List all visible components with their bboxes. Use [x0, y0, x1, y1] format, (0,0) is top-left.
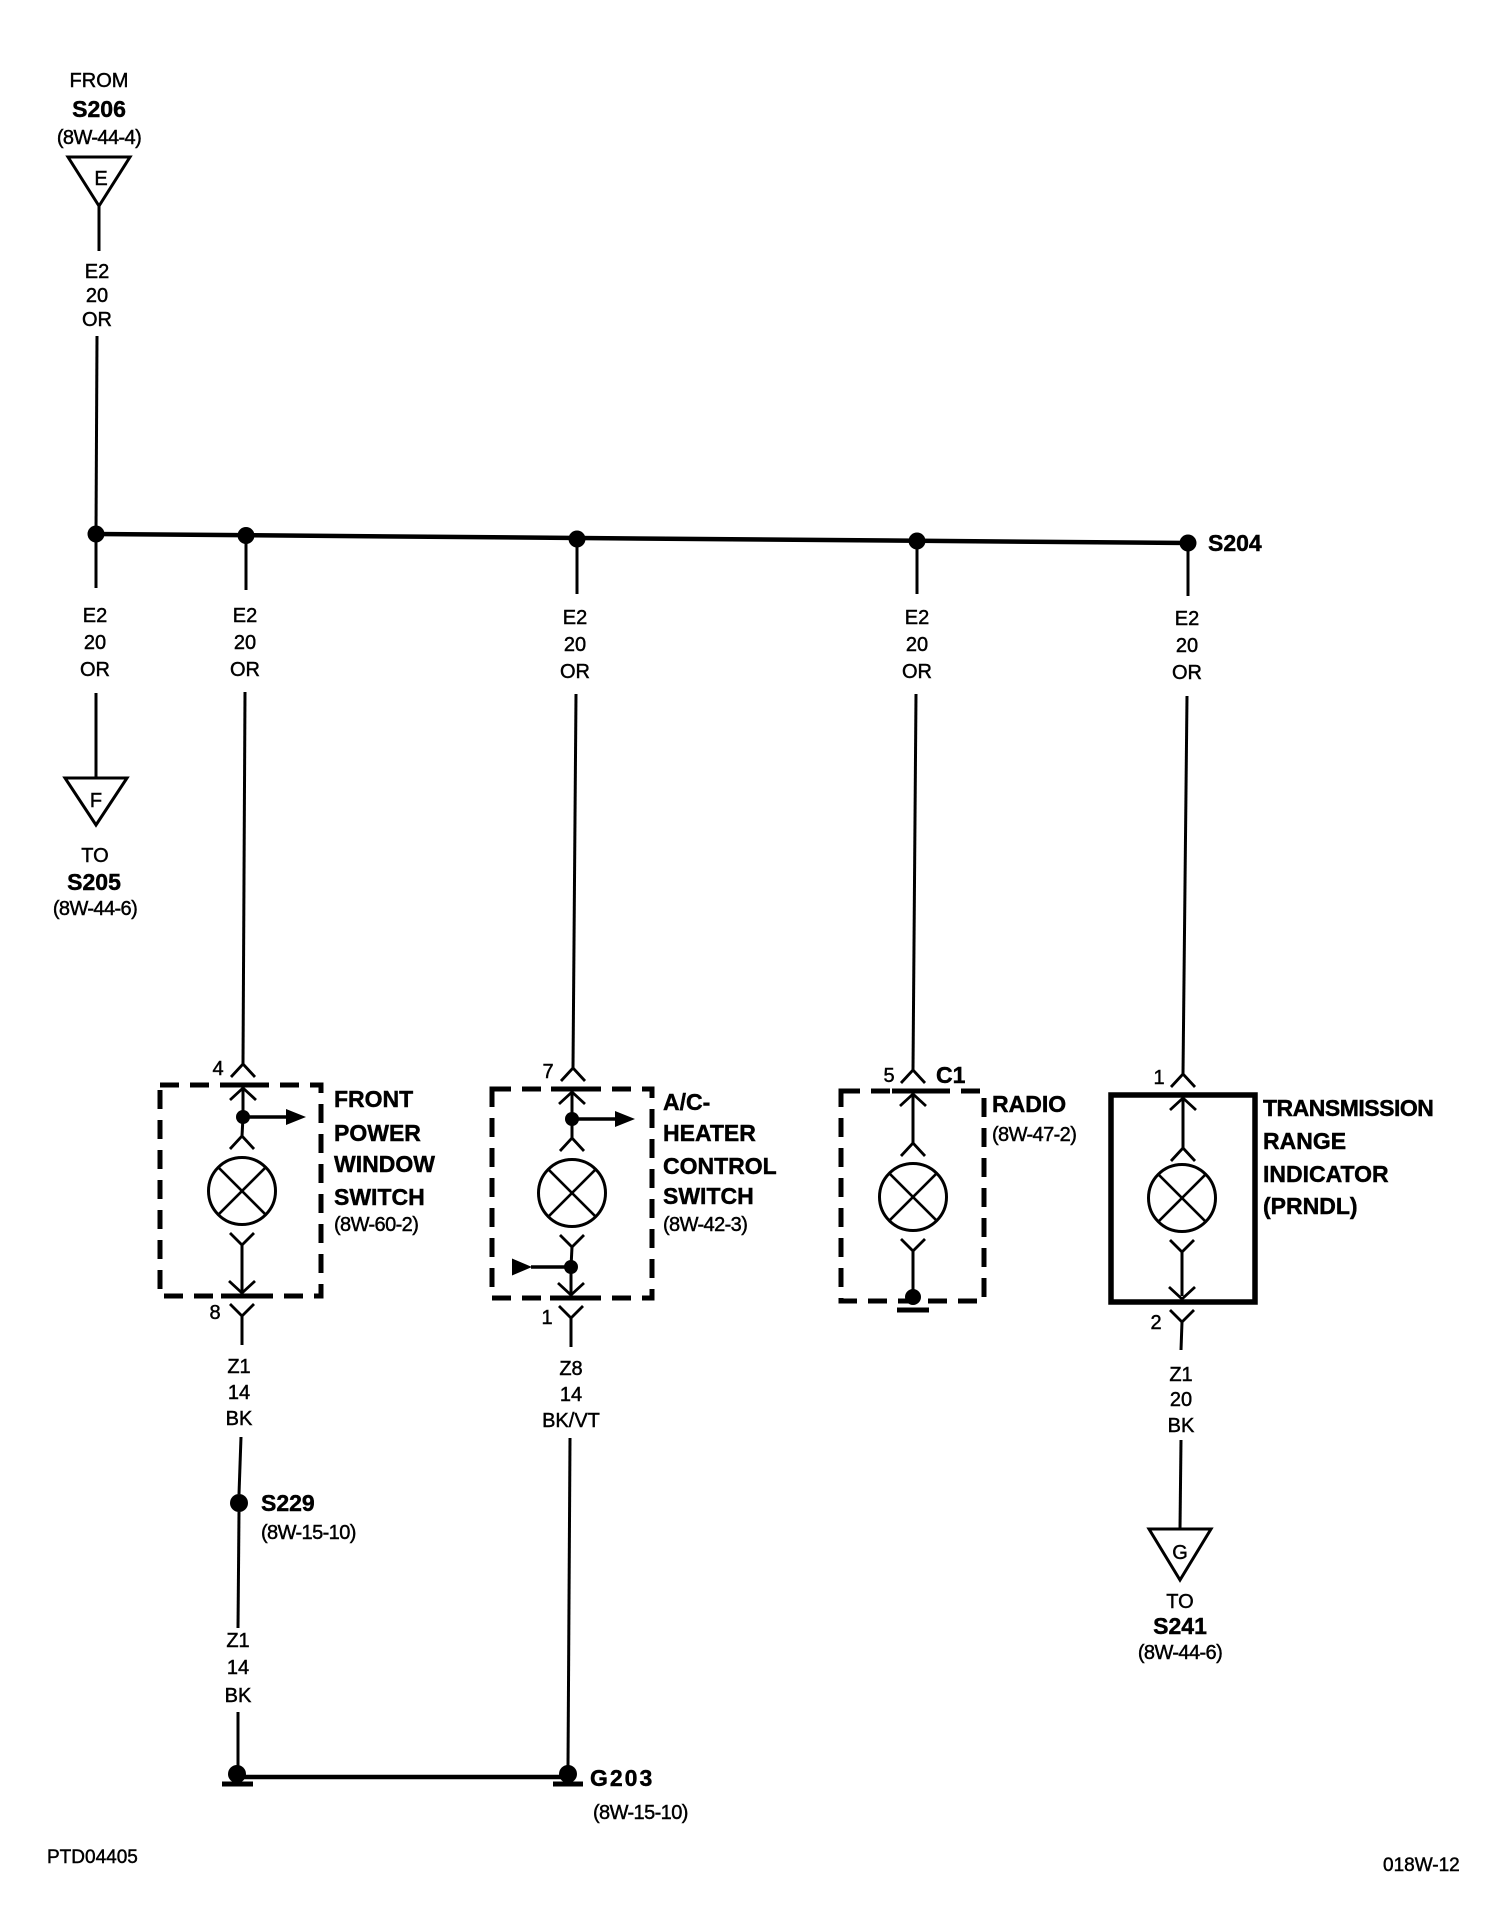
- svg-text:TRANSMISSION: TRANSMISSION: [1263, 1095, 1433, 1121]
- svg-text:E: E: [94, 168, 107, 190]
- svg-text:FROM: FROM: [70, 70, 129, 92]
- svg-text:7: 7: [542, 1061, 553, 1083]
- svg-text:BK: BK: [226, 1408, 253, 1430]
- svg-text:S241: S241: [1153, 1613, 1207, 1639]
- svg-text:F: F: [90, 790, 102, 812]
- svg-text:WINDOW: WINDOW: [334, 1151, 435, 1177]
- svg-text:SWITCH: SWITCH: [334, 1184, 425, 1210]
- svg-text:S205: S205: [67, 869, 121, 895]
- svg-text:E2: E2: [233, 605, 257, 627]
- svg-text:CONTROL: CONTROL: [663, 1153, 777, 1179]
- svg-text:Z1: Z1: [226, 1630, 249, 1652]
- svg-text:OR: OR: [82, 309, 112, 331]
- svg-text:INDICATOR: INDICATOR: [1263, 1161, 1389, 1187]
- svg-text:C1: C1: [936, 1062, 966, 1088]
- svg-text:(8W-60-2): (8W-60-2): [334, 1214, 418, 1236]
- svg-text:Z8: Z8: [559, 1358, 582, 1380]
- svg-text:RADIO: RADIO: [992, 1091, 1066, 1117]
- svg-text:4: 4: [212, 1058, 223, 1080]
- svg-text:OR: OR: [560, 661, 590, 683]
- svg-text:E2: E2: [1175, 608, 1199, 630]
- svg-text:018W-12: 018W-12: [1383, 1855, 1460, 1876]
- svg-text:BK: BK: [225, 1685, 252, 1707]
- svg-text:14: 14: [228, 1382, 250, 1404]
- svg-text:(8W-44-6): (8W-44-6): [53, 898, 137, 920]
- svg-text:SWITCH: SWITCH: [663, 1183, 754, 1209]
- svg-text:20: 20: [564, 634, 586, 656]
- svg-text:TO: TO: [81, 845, 108, 867]
- svg-text:E2: E2: [83, 605, 107, 627]
- svg-text:E2: E2: [905, 607, 929, 629]
- svg-text:20: 20: [1176, 635, 1198, 657]
- svg-text:Z1: Z1: [1169, 1364, 1192, 1386]
- svg-text:E2: E2: [85, 261, 109, 283]
- svg-text:(8W-42-3): (8W-42-3): [663, 1214, 747, 1236]
- svg-text:S229: S229: [261, 1490, 315, 1516]
- svg-text:(PRNDL): (PRNDL): [1263, 1193, 1358, 1219]
- svg-text:(8W-47-2): (8W-47-2): [992, 1124, 1076, 1146]
- svg-text:20: 20: [86, 285, 108, 307]
- svg-text:OR: OR: [230, 659, 260, 681]
- svg-text:5: 5: [883, 1065, 894, 1087]
- svg-text:S204: S204: [1208, 530, 1262, 556]
- svg-text:HEATER: HEATER: [663, 1120, 756, 1146]
- svg-text:OR: OR: [1172, 662, 1202, 684]
- svg-text:20: 20: [1170, 1389, 1192, 1411]
- svg-text:20: 20: [906, 634, 928, 656]
- svg-text:20: 20: [84, 632, 106, 654]
- svg-text:FRONT: FRONT: [334, 1086, 413, 1112]
- svg-text:A/C-: A/C-: [663, 1089, 710, 1115]
- svg-text:E2: E2: [563, 607, 587, 629]
- svg-text:OR: OR: [80, 659, 110, 681]
- svg-text:1: 1: [1153, 1067, 1164, 1089]
- svg-text:Z1: Z1: [227, 1356, 250, 1378]
- svg-text:TO: TO: [1166, 1591, 1193, 1613]
- svg-text:(8W-44-6): (8W-44-6): [1138, 1642, 1222, 1664]
- svg-text:20: 20: [234, 632, 256, 654]
- svg-text:S206: S206: [72, 96, 126, 122]
- svg-text:PTD04405: PTD04405: [47, 1847, 138, 1868]
- svg-text:G203: G203: [590, 1765, 654, 1791]
- svg-text:G: G: [1172, 1542, 1188, 1564]
- svg-text:14: 14: [560, 1384, 582, 1406]
- svg-text:BK: BK: [1168, 1415, 1195, 1437]
- svg-text:(8W-44-4): (8W-44-4): [57, 127, 141, 149]
- svg-text:POWER: POWER: [334, 1120, 421, 1146]
- svg-text:BK/VT: BK/VT: [542, 1410, 600, 1432]
- svg-text:(8W-15-10): (8W-15-10): [593, 1802, 688, 1824]
- svg-text:8: 8: [209, 1302, 220, 1324]
- svg-text:OR: OR: [902, 661, 932, 683]
- svg-text:2: 2: [1150, 1312, 1161, 1334]
- svg-text:RANGE: RANGE: [1263, 1128, 1346, 1154]
- svg-text:(8W-15-10): (8W-15-10): [261, 1522, 356, 1544]
- svg-text:14: 14: [227, 1657, 249, 1679]
- svg-text:1: 1: [541, 1307, 552, 1329]
